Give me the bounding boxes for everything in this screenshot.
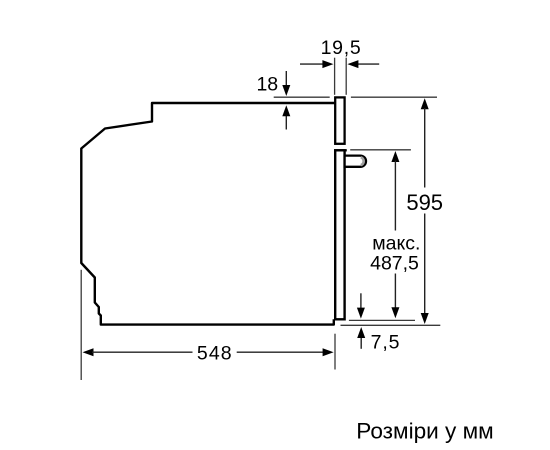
door top lip	[334, 149, 347, 151]
svg-text:макс.: макс.	[372, 233, 420, 255]
dim 19,5 left arrow	[300, 63, 324, 65]
latch shading	[361, 157, 364, 165]
dim 548 line	[83, 348, 94, 356]
extension line door bottom level	[349, 319, 415, 321]
extension line body bottom level	[341, 324, 441, 326]
dim 7,5 lower arrow	[360, 337, 362, 349]
svg-text:19,5: 19,5	[321, 37, 362, 59]
extension line 548 left	[80, 270, 82, 380]
dim 19,5 right arrow	[358, 63, 380, 65]
door latch tab	[345, 156, 366, 167]
svg-text:595: 595	[406, 190, 443, 215]
front trim strip	[335, 97, 344, 143]
dim 487,5 line	[391, 151, 399, 162]
dim 18 up arrow	[285, 116, 287, 130]
svg-text:487,5: 487,5	[370, 253, 419, 275]
dim 595 line	[421, 98, 429, 109]
dim 7,5 upper arrow	[360, 293, 362, 308]
dim 18 down arrow	[285, 71, 287, 86]
oven door front	[335, 150, 344, 319]
oven body outline	[81, 103, 336, 325]
extension line 548 right	[334, 334, 336, 370]
svg-text:18: 18	[256, 74, 278, 96]
extension line frame-top left	[274, 96, 330, 98]
extension line trim right vertical	[345, 58, 347, 95]
svg-text:7,5: 7,5	[371, 332, 401, 354]
extension line trim left vertical	[334, 58, 336, 95]
extension line frame-top right	[351, 96, 437, 98]
svg-text:548: 548	[197, 342, 233, 364]
svg-text:Розміри у мм: Розміри у мм	[356, 419, 493, 444]
extension line latch level	[350, 149, 411, 151]
